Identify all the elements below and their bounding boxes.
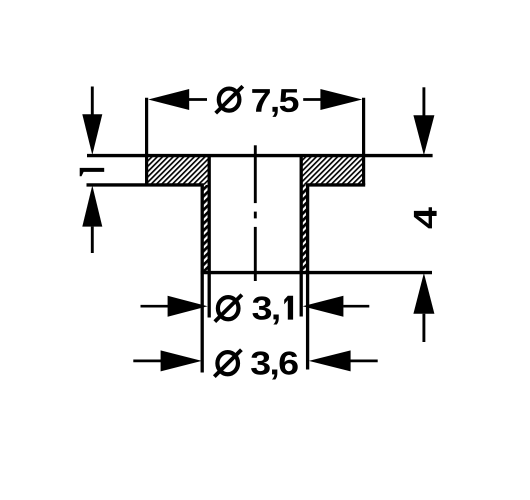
dimension Ø3,1 right arrowhead (points left) xyxy=(303,296,344,317)
dimension Ø3,1 left arrowhead (points right) xyxy=(168,296,208,317)
dimension Ø7,5 label xyxy=(216,86,299,117)
dimension 4 bottom arrow stem xyxy=(422,314,425,342)
sleeve outer wall left line + Ø3,6 extension xyxy=(201,185,204,373)
flange right edge + Ø7,5 right extension line xyxy=(362,98,365,185)
flange bottom edge line left segment (extended left for dim 1) xyxy=(87,183,204,186)
dimension Ø3,1 right tail xyxy=(343,305,369,308)
sleeve outer wall right line + Ø3,6 extension xyxy=(306,185,309,370)
dimension 4 label (rotated) xyxy=(414,207,437,228)
hole inner wall left line + Ø3,1 extension xyxy=(208,156,211,318)
dimension Ø3,6 right arrowhead (points left) xyxy=(309,350,351,371)
dimension 4 top arrow stem xyxy=(422,87,425,115)
dimension 1 top arrowhead (down) xyxy=(82,114,102,155)
hatch sleeve wall left strip xyxy=(202,185,209,273)
dimension Ø3,6 right tail xyxy=(350,360,377,363)
dimension 4 top arrowhead (down) xyxy=(413,115,434,155)
hatch flange left block xyxy=(147,156,210,185)
dimension Ø3,6 left tail xyxy=(133,360,161,363)
dimension Ø3,6 label xyxy=(214,350,297,380)
centerline (dash-dot) xyxy=(254,145,257,281)
dimension Ø3,6 left arrowhead (points right) xyxy=(161,350,202,371)
dimension 1 bottom arrowhead (up) xyxy=(82,185,102,226)
hatch flange right block xyxy=(301,156,363,185)
dimension 1 top arrow stem xyxy=(91,87,94,115)
hatch sleeve wall right strip xyxy=(301,185,307,273)
dimension Ø7,5 line right tail xyxy=(303,98,320,101)
dimension Ø3,1 label xyxy=(215,295,293,325)
dimension 4 bottom arrowhead (up) xyxy=(413,273,434,314)
dimension Ø3,1 left tail xyxy=(141,305,169,308)
dimension Ø7,5 right arrowhead xyxy=(320,89,362,110)
flange top edge line (extended for dims 1 and 4) xyxy=(87,154,433,157)
dimension 1 label (rotated) xyxy=(80,168,105,176)
sleeve bottom edge line (extended right for dim 4) xyxy=(201,271,432,274)
hole inner wall right line + Ø3,1 extension xyxy=(300,156,303,317)
flange left edge + Ø7,5 left extension line xyxy=(145,98,148,185)
dimension 1 bottom arrow stem xyxy=(91,227,94,253)
dimension Ø7,5 left arrowhead xyxy=(148,89,189,110)
flange bottom edge line right segment xyxy=(306,183,365,186)
dimension Ø7,5 line left tail xyxy=(189,98,207,101)
